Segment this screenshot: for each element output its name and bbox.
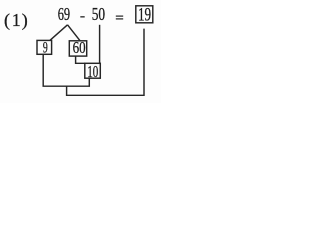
wire 50 down to box 10 xyxy=(99,25,101,64)
svg-text:50: 50 xyxy=(92,4,105,24)
branch diagonal 69 to 9 xyxy=(50,25,68,41)
svg-text:60: 60 xyxy=(73,38,86,57)
minus sign xyxy=(80,16,84,17)
box 60 xyxy=(69,41,86,56)
box 10 xyxy=(85,63,101,78)
branch diagonal 69 to 60 xyxy=(68,25,81,41)
equals sign xyxy=(116,16,123,17)
wire merge of 9 and 10 xyxy=(43,54,89,86)
wire merge down right and up to answer 19 xyxy=(67,29,144,96)
svg-text:19: 19 xyxy=(138,5,151,26)
wire 60 elbow to box 10 xyxy=(76,56,86,63)
svg-text:(1): (1) xyxy=(4,10,28,31)
box 9 xyxy=(37,40,52,54)
svg-text:69: 69 xyxy=(58,4,70,24)
svg-text:9: 9 xyxy=(43,39,48,56)
answer box 19 xyxy=(136,6,153,23)
